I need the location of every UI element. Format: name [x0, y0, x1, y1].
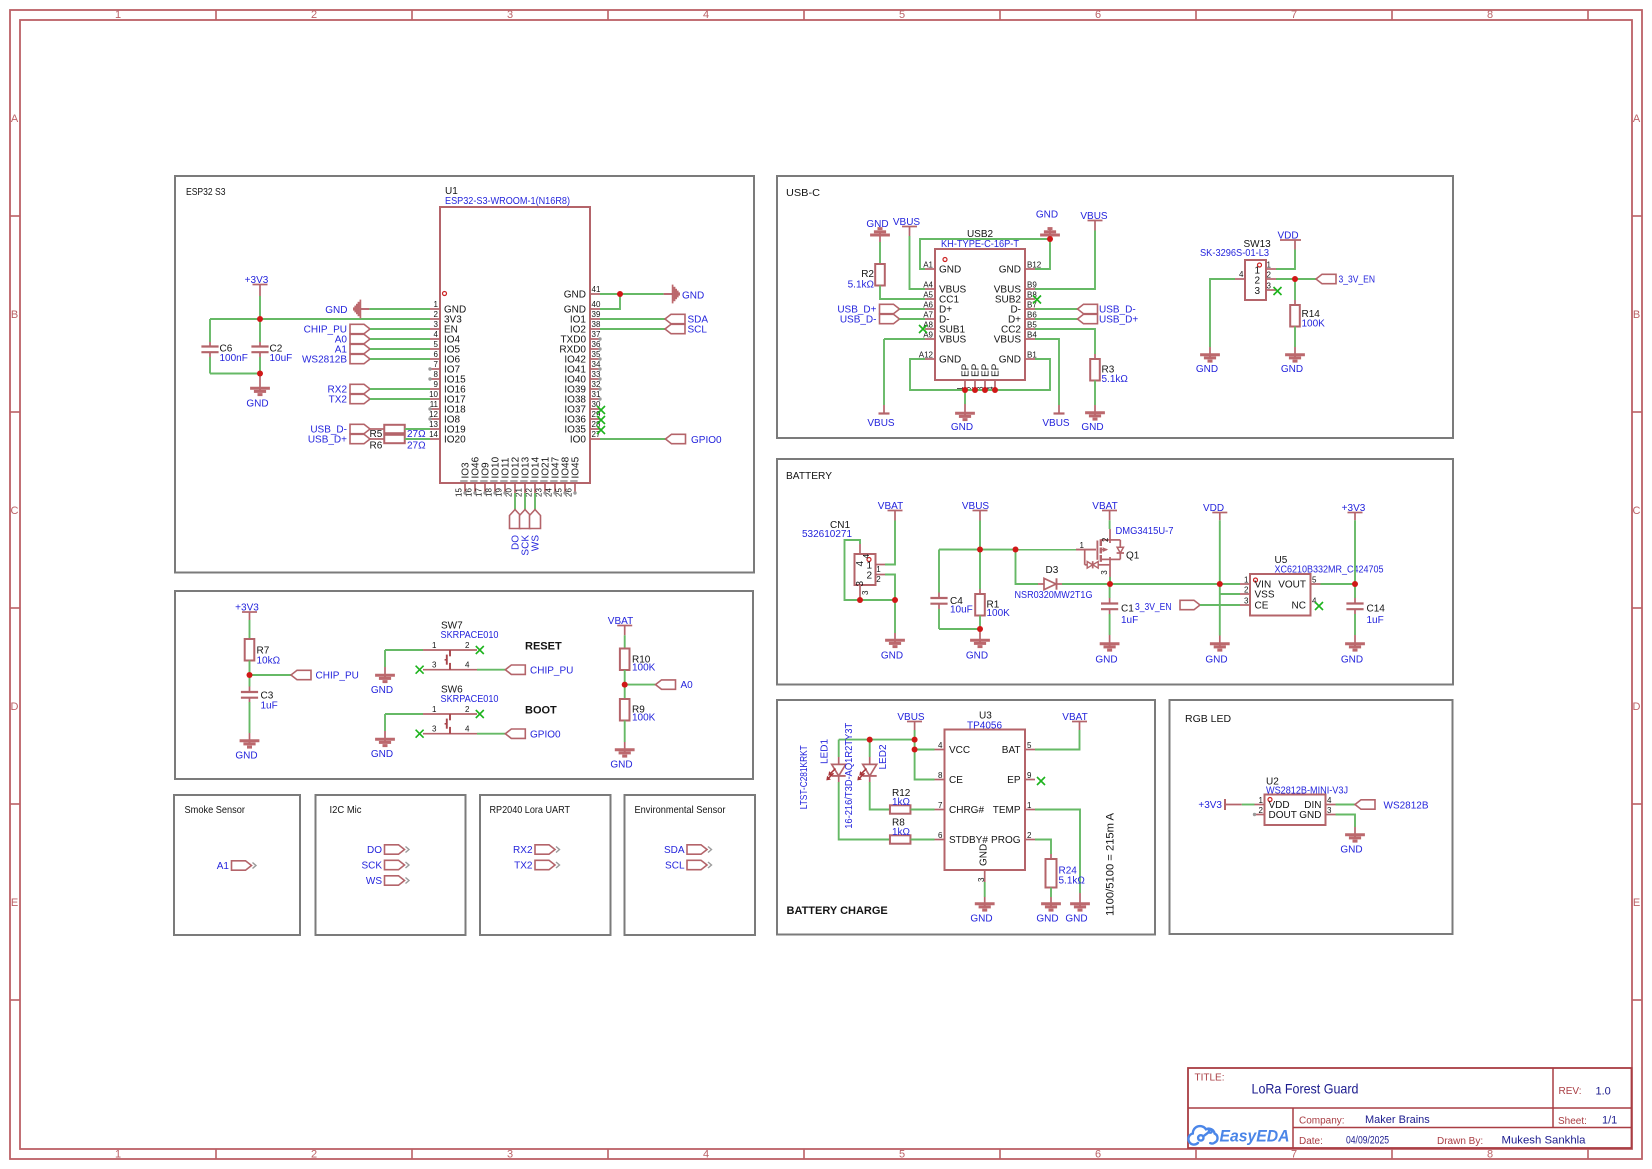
svg-text:PROG: PROG [991, 835, 1021, 846]
svg-text:14: 14 [429, 430, 438, 439]
svg-text:2: 2 [311, 9, 317, 21]
svg-text:EasyEDA: EasyEDA [1220, 1128, 1290, 1146]
svg-text:SDA: SDA [664, 845, 685, 856]
svg-text:4: 4 [855, 561, 866, 567]
svg-text:3: 3 [855, 581, 866, 587]
svg-text:Smoke Sensor: Smoke Sensor [185, 804, 246, 816]
svg-text:GND: GND [939, 355, 961, 366]
svg-text:GND: GND [1205, 655, 1227, 666]
svg-text:TX2: TX2 [329, 395, 348, 406]
svg-text:6: 6 [938, 831, 943, 840]
svg-text:GND: GND [1341, 655, 1363, 666]
svg-text:2: 2 [1027, 831, 1032, 840]
svg-text:A: A [1633, 113, 1641, 125]
svg-text:GND: GND [1036, 210, 1058, 221]
svg-text:1uF: 1uF [1367, 615, 1384, 626]
svg-text:5: 5 [434, 340, 439, 349]
svg-text:GND: GND [881, 651, 903, 662]
svg-text:5.1kΩ: 5.1kΩ [1059, 876, 1086, 887]
svg-text:R2: R2 [861, 269, 874, 280]
svg-text:10uF: 10uF [950, 605, 973, 616]
svg-text:Mukesh Sankhla: Mukesh Sankhla [1502, 1135, 1587, 1147]
svg-text:3: 3 [1254, 286, 1260, 297]
svg-text:1: 1 [876, 565, 881, 574]
svg-text:GND: GND [999, 265, 1021, 276]
svg-text:38: 38 [592, 320, 601, 329]
svg-text:SCL: SCL [665, 861, 685, 872]
svg-text:VOUT: VOUT [1278, 580, 1306, 591]
svg-text:RGB LED: RGB LED [1185, 713, 1232, 725]
svg-text:532610271: 532610271 [802, 529, 852, 540]
svg-text:5: 5 [899, 1149, 905, 1161]
svg-text:D3: D3 [1046, 565, 1059, 576]
svg-text:USB-C: USB-C [786, 187, 820, 199]
svg-text:DO: DO [367, 845, 382, 856]
svg-text:NSR0320MW2T1G: NSR0320MW2T1G [1015, 590, 1093, 601]
svg-text:04/09/2025: 04/09/2025 [1346, 1135, 1389, 1147]
svg-text:2: 2 [465, 641, 470, 650]
svg-text:CHRG#: CHRG# [949, 805, 984, 816]
svg-text:7: 7 [434, 360, 439, 369]
svg-text:IO0: IO0 [570, 435, 587, 446]
svg-text:1: 1 [1244, 576, 1249, 585]
svg-text:27Ω: 27Ω [407, 429, 426, 440]
svg-text:BAT: BAT [1002, 745, 1021, 756]
svg-text:WS: WS [366, 876, 382, 887]
svg-text:GND: GND [979, 844, 990, 866]
svg-text:1uF: 1uF [261, 701, 278, 712]
svg-text:3: 3 [432, 661, 437, 670]
svg-text:Company:: Company: [1299, 1116, 1345, 1127]
svg-text:GND: GND [235, 751, 257, 762]
svg-text:A0: A0 [681, 680, 694, 691]
svg-text:1: 1 [1027, 801, 1032, 810]
svg-text:7: 7 [1291, 9, 1297, 21]
svg-text:1: 1 [1080, 541, 1085, 550]
svg-text:GND: GND [1299, 810, 1321, 821]
svg-text:DOUT: DOUT [1269, 810, 1297, 821]
svg-text:GND: GND [1036, 914, 1058, 925]
svg-text:WS: WS [531, 535, 542, 551]
svg-text:+3V3: +3V3 [1198, 800, 1222, 811]
svg-text:D: D [1633, 701, 1641, 713]
svg-text:VBUS: VBUS [1042, 418, 1070, 429]
svg-text:I2C Mic: I2C Mic [330, 804, 362, 816]
svg-text:GND: GND [610, 760, 632, 771]
svg-text:CHIP_PU: CHIP_PU [530, 666, 573, 677]
svg-text:BOOT: BOOT [525, 704, 557, 716]
svg-text:DMG3415U-7: DMG3415U-7 [1116, 526, 1174, 537]
svg-text:8: 8 [938, 771, 943, 780]
svg-text:3: 3 [1244, 597, 1249, 606]
svg-text:VCC: VCC [949, 745, 970, 756]
svg-text:EP: EP [991, 363, 1002, 377]
svg-text:VBUS: VBUS [867, 418, 895, 429]
svg-text:5: 5 [899, 9, 905, 21]
svg-text:6: 6 [434, 350, 439, 359]
svg-text:4: 4 [1327, 796, 1332, 805]
svg-text:2: 2 [434, 310, 439, 319]
svg-text:Sheet:: Sheet: [1558, 1116, 1587, 1127]
svg-text:1: 1 [115, 9, 121, 21]
svg-text:GND: GND [970, 914, 992, 925]
svg-text:CHIP_PU: CHIP_PU [316, 671, 359, 682]
svg-text:40: 40 [592, 300, 601, 309]
svg-text:1: 1 [115, 1149, 121, 1161]
svg-text:100K: 100K [1302, 319, 1326, 330]
svg-text:5: 5 [1312, 576, 1317, 585]
svg-text:RX2: RX2 [513, 845, 533, 856]
svg-text:IO20: IO20 [444, 435, 466, 446]
svg-text:VBUS: VBUS [994, 335, 1022, 346]
svg-text:2: 2 [1244, 586, 1249, 595]
svg-text:27Ω: 27Ω [407, 441, 426, 452]
svg-text:GND: GND [371, 685, 393, 696]
svg-text:GND: GND [1281, 364, 1303, 375]
svg-text:21: 21 [515, 488, 524, 497]
svg-text:WS2812B: WS2812B [1384, 801, 1429, 812]
svg-text:1: 1 [432, 641, 437, 650]
svg-text:VBUS: VBUS [939, 335, 967, 346]
svg-text:SK-3296S-01-L3: SK-3296S-01-L3 [1200, 248, 1269, 259]
svg-text:15: 15 [455, 488, 464, 497]
svg-text:3: 3 [1327, 806, 1332, 815]
svg-text:LED1: LED1 [820, 739, 831, 764]
svg-text:Maker Brains: Maker Brains [1365, 1114, 1430, 1126]
svg-text:2: 2 [465, 705, 470, 714]
svg-text:GND: GND [951, 422, 973, 433]
svg-text:1kΩ: 1kΩ [892, 797, 911, 808]
svg-text:LTST-C281KRKT: LTST-C281KRKT [799, 745, 810, 809]
svg-text:22: 22 [525, 488, 534, 497]
svg-text:5.1kΩ: 5.1kΩ [1102, 374, 1129, 385]
svg-text:1.0: 1.0 [1596, 1086, 1611, 1098]
svg-text:EP: EP [1007, 775, 1021, 786]
svg-text:GND: GND [1081, 422, 1103, 433]
svg-text:REV:: REV: [1559, 1086, 1582, 1097]
svg-text:RESET: RESET [525, 640, 562, 652]
svg-text:10kΩ: 10kΩ [257, 656, 281, 667]
svg-text:E: E [11, 897, 18, 909]
svg-text:23: 23 [535, 488, 544, 497]
svg-text:A: A [11, 113, 19, 125]
svg-text:ESP32-S3-WROOM-1(N16R8): ESP32-S3-WROOM-1(N16R8) [445, 196, 570, 207]
svg-text:TITLE:: TITLE: [1195, 1073, 1225, 1084]
svg-text:NC: NC [1292, 601, 1306, 612]
svg-text:4: 4 [434, 330, 439, 339]
svg-text:LED2: LED2 [878, 744, 889, 769]
svg-text:GND: GND [939, 265, 961, 276]
svg-text:GND: GND [1065, 914, 1087, 925]
svg-text:7: 7 [1291, 1149, 1297, 1161]
svg-text:100K: 100K [632, 663, 656, 674]
svg-text:ESP32 S3: ESP32 S3 [186, 186, 226, 198]
svg-text:TEMP: TEMP [993, 805, 1021, 816]
svg-text:100K: 100K [987, 608, 1011, 619]
svg-text:GND: GND [999, 355, 1021, 366]
svg-text:8: 8 [1487, 9, 1493, 21]
svg-text:USB_D+: USB_D+ [1099, 315, 1138, 326]
svg-text:BATTERY CHARGE: BATTERY CHARGE [787, 905, 888, 917]
svg-text:4: 4 [938, 741, 943, 750]
svg-text:2: 2 [311, 1149, 317, 1161]
svg-text:RP2040 Lora UART: RP2040 Lora UART [490, 804, 571, 816]
svg-text:3_3V_EN: 3_3V_EN [1339, 275, 1376, 286]
svg-text:4: 4 [703, 1149, 709, 1161]
svg-text:GND: GND [1340, 845, 1362, 856]
svg-text:C14: C14 [1367, 604, 1386, 615]
svg-text:IO45: IO45 [571, 456, 582, 478]
svg-text:2: 2 [1254, 276, 1260, 287]
svg-text:Q1: Q1 [1126, 551, 1140, 562]
svg-text:1: 1 [1267, 261, 1272, 270]
svg-text:3: 3 [434, 320, 439, 329]
svg-text:3: 3 [1100, 570, 1109, 575]
svg-text:E: E [1633, 897, 1640, 909]
svg-text:1: 1 [432, 705, 437, 714]
svg-text:GND: GND [325, 305, 347, 316]
svg-text:R5: R5 [370, 429, 383, 440]
svg-text:3: 3 [432, 725, 437, 734]
svg-text:9: 9 [1027, 771, 1032, 780]
svg-text:3: 3 [977, 877, 986, 882]
svg-text:39: 39 [592, 310, 601, 319]
svg-text:3_3V_EN: 3_3V_EN [1135, 602, 1172, 613]
svg-text:1: 1 [1259, 796, 1264, 805]
svg-text:GND: GND [1095, 655, 1117, 666]
svg-text:6: 6 [1095, 9, 1101, 21]
svg-text:6: 6 [1095, 1149, 1101, 1161]
svg-text:USB_D-: USB_D- [840, 315, 877, 326]
svg-text:GPIO0: GPIO0 [530, 730, 561, 741]
svg-text:CE: CE [949, 775, 963, 786]
svg-text:SKRPACE010: SKRPACE010 [441, 694, 499, 705]
svg-text:4: 4 [465, 725, 470, 734]
svg-text:2: 2 [1267, 271, 1272, 280]
svg-text:GND: GND [371, 749, 393, 760]
svg-text:USB_D+: USB_D+ [308, 435, 347, 446]
svg-text:4: 4 [1239, 270, 1244, 279]
svg-text:1100/5100 = 215m A: 1100/5100 = 215m A [1105, 812, 1117, 916]
svg-text:Drawn By:: Drawn By: [1437, 1136, 1483, 1147]
svg-text:GND: GND [966, 651, 988, 662]
svg-text:100K: 100K [632, 713, 656, 724]
svg-text:4: 4 [862, 554, 871, 559]
svg-text:1kΩ: 1kΩ [892, 827, 911, 838]
svg-text:CE: CE [1255, 601, 1269, 612]
svg-text:BATTERY: BATTERY [786, 470, 832, 482]
svg-text:2: 2 [1101, 537, 1110, 542]
svg-text:4: 4 [465, 661, 470, 670]
svg-text:1uF: 1uF [1121, 615, 1138, 626]
svg-text:SKRPACE010: SKRPACE010 [441, 630, 499, 641]
svg-text:LoRa Forest Guard: LoRa Forest Guard [1252, 1081, 1359, 1097]
svg-text:WS2812B: WS2812B [302, 355, 347, 366]
svg-text:1/1: 1/1 [1602, 1115, 1617, 1127]
svg-text:9: 9 [434, 380, 439, 389]
svg-text:3: 3 [1267, 282, 1272, 291]
svg-text:5.1kΩ: 5.1kΩ [848, 280, 875, 291]
svg-text:C1: C1 [1121, 604, 1134, 615]
svg-text:GND: GND [564, 290, 586, 301]
svg-text:8: 8 [434, 370, 439, 379]
svg-text:3: 3 [507, 1149, 513, 1161]
svg-text:GND: GND [246, 399, 268, 410]
svg-text:13: 13 [429, 420, 438, 429]
svg-text:3: 3 [507, 9, 513, 21]
svg-text:1: 1 [434, 300, 439, 309]
svg-text:B: B [1633, 309, 1640, 321]
svg-text:3: 3 [861, 590, 870, 595]
svg-text:Date:: Date: [1299, 1136, 1323, 1147]
svg-text:4: 4 [703, 9, 709, 21]
svg-text:GND: GND [1196, 364, 1218, 375]
svg-text:41: 41 [592, 285, 601, 294]
svg-text:GPIO0: GPIO0 [691, 435, 722, 446]
svg-text:16-216/T3D-AQ1R2TY3T: 16-216/T3D-AQ1R2TY3T [844, 723, 855, 829]
svg-text:R6: R6 [370, 441, 383, 452]
svg-text:10uF: 10uF [270, 353, 293, 364]
svg-text:7: 7 [938, 801, 943, 810]
svg-text:2: 2 [866, 571, 872, 582]
svg-text:10: 10 [429, 390, 438, 399]
svg-text:2: 2 [876, 575, 881, 584]
svg-text:C: C [1633, 505, 1641, 517]
svg-text:D: D [11, 701, 19, 713]
svg-text:VSS: VSS [1255, 590, 1275, 601]
svg-text:100nF: 100nF [220, 353, 248, 364]
svg-text:A1: A1 [217, 861, 230, 872]
svg-text:TX2: TX2 [514, 861, 533, 872]
svg-text:8: 8 [1487, 1149, 1493, 1161]
svg-text:2: 2 [1259, 806, 1264, 815]
svg-text:GND: GND [682, 291, 704, 302]
svg-text:5: 5 [1027, 741, 1032, 750]
svg-text:SCL: SCL [688, 325, 708, 336]
svg-text:C: C [11, 505, 19, 517]
svg-text:SCK: SCK [361, 861, 382, 872]
svg-text:Environmental Sensor: Environmental Sensor [635, 804, 726, 816]
svg-text:B: B [11, 309, 18, 321]
